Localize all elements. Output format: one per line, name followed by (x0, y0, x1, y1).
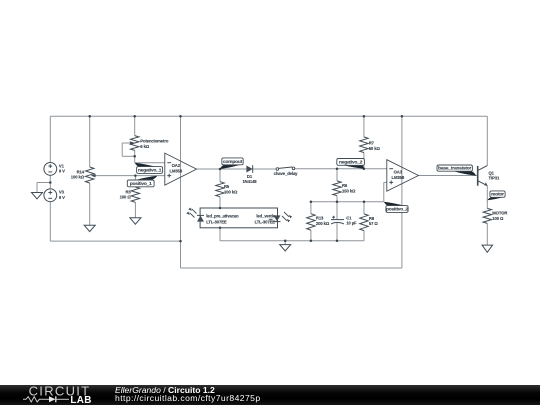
LED arrows (left) (190, 209, 197, 218)
svg-text:positivo_2: positivo_2 (386, 207, 408, 213)
svg-text:negativo_1: negativo_1 (138, 168, 162, 174)
svg-text:R7: R7 (369, 141, 375, 146)
svg-text:150 kΩ: 150 kΩ (342, 189, 356, 194)
ground (LED rail) (280, 245, 291, 251)
wire R7 top (363, 116, 365, 137)
node R3 positivo_1 junction (134, 174, 137, 177)
svg-text:C1: C1 (346, 215, 352, 220)
ground (R14) (84, 225, 95, 231)
capacitor C1 10uF (331, 219, 344, 221)
footer bar (0, 385, 540, 405)
svg-text:1N4148: 1N4148 (242, 179, 257, 184)
svg-text:MOTOR: MOTOR (492, 211, 507, 216)
svg-text:200 kΩ: 200 kΩ (316, 221, 330, 226)
svg-text:R6: R6 (342, 183, 348, 188)
transistor Q1 TIP31 (477, 166, 479, 186)
wire negativo_1 to OA2 minus (135, 162, 165, 164)
wire R8 bottom (363, 231, 365, 241)
svg-text:R8: R8 (369, 216, 375, 221)
node ground rail junctions (284, 240, 287, 243)
R14 wiper arrow (91, 174, 96, 178)
resistor MOTOR (483, 208, 491, 223)
svg-text:TIP31: TIP31 (489, 176, 500, 181)
node V3 rail junction (179, 240, 182, 243)
wire R14 wiper (95, 175, 165, 177)
svg-text:R13: R13 (316, 216, 324, 221)
svg-text:LM358: LM358 (170, 169, 183, 174)
wire R7 bottom (363, 153, 365, 169)
svg-text:LM358: LM358 (392, 175, 405, 180)
svg-text:OA3: OA3 (394, 170, 403, 175)
wire ground stub (284, 241, 286, 245)
svg-text:Potenciometro: Potenciometro (140, 139, 169, 144)
wire negative supply rail (181, 267, 402, 269)
svg-text:Q1: Q1 (489, 170, 495, 175)
wire positivo_2 net (311, 201, 384, 203)
wire LED box bottom drop (219, 228, 221, 241)
wire R6 top (336, 169, 338, 181)
wire junction to left ground (37, 182, 50, 184)
wire R13 top (310, 202, 312, 214)
resistor R14 (85, 167, 93, 183)
svg-text:100 Ω: 100 Ω (492, 216, 504, 221)
node negativo_2 junctions (336, 167, 339, 170)
wire R6 bottom (336, 196, 338, 202)
resistor R8 (360, 214, 368, 231)
ground (motor) (482, 245, 493, 252)
LED arrows (right) (282, 212, 289, 221)
wire D1 cathode to switch (253, 168, 277, 170)
svg-text:9 V: 9 V (59, 169, 65, 174)
wire switch to OA3 minus (295, 168, 387, 170)
svg-text:100 Ω: 100 Ω (120, 195, 132, 200)
wire R5 to LED box (219, 197, 221, 208)
wire potentiometer wiper loop (122, 142, 130, 144)
resistor R3 (131, 187, 139, 202)
svg-text:base_transistor: base_transistor (438, 165, 471, 171)
resistor R5 (216, 182, 224, 197)
svg-text:100 kΩ: 100 kΩ (71, 175, 85, 180)
net flag positivo_1 (136, 176, 158, 180)
svg-text:led_verde: led_verde (256, 213, 275, 218)
op-amp OA2 LM358 (165, 153, 197, 185)
wire potentiometer top (134, 116, 136, 135)
svg-text:50 kΩ: 50 kΩ (369, 146, 381, 151)
node compout junction (219, 168, 222, 171)
wire OA2 output (197, 168, 247, 170)
svg-text:V1: V1 (59, 163, 65, 168)
svg-text:OA2: OA2 (172, 163, 181, 168)
LED enclosure box (200, 208, 277, 228)
svg-text:6 kΩ: 6 kΩ (140, 144, 150, 149)
svg-text:negativo_2: negativo_2 (339, 159, 363, 165)
svg-text:V3: V3 (59, 190, 65, 195)
wire V3 bottom rail (49, 202, 51, 241)
resistor R13 (307, 214, 315, 230)
svg-text:R3: R3 (125, 189, 131, 194)
svg-text:10 µF: 10 µF (346, 221, 357, 226)
svg-text:R14: R14 (77, 169, 85, 174)
net flag compout (220, 165, 241, 169)
svg-text:LAB: LAB (70, 395, 91, 405)
wire C1 leads (336, 202, 338, 220)
voltage source V1 (44, 163, 57, 176)
LED led_verde LTL-307EE (274, 215, 281, 221)
wire OA2 supply vertical (180, 116, 182, 268)
svg-text:motor: motor (491, 191, 504, 197)
wire motor to ground (486, 223, 488, 245)
wire R13 bottom (310, 230, 312, 241)
svg-text:compout: compout (223, 159, 243, 165)
svg-text:led_pre_ativacao: led_pre_ativacao (206, 213, 239, 218)
wire Q1 emitter to motor (486, 186, 488, 209)
node rail junctions (88, 115, 91, 118)
svg-text:chave_delay: chave_delay (274, 171, 299, 176)
wire LED ground rail (220, 240, 364, 242)
node V1-V3-ground junction (49, 181, 52, 184)
wire R8 top (363, 202, 365, 214)
wire OA3 output to Q1 base (419, 175, 478, 177)
diode D1 1N4148 (246, 166, 252, 173)
ground (V1/V3 midpoint) (32, 193, 43, 199)
op-amp OA3 LM358 (387, 160, 419, 191)
svg-text:R5: R5 (224, 184, 230, 189)
node positivo_2 junctions (310, 200, 313, 203)
wire Q1 collector drop (486, 116, 488, 165)
ground (R3) (130, 218, 141, 224)
node potentiometer wiper junction (133, 155, 136, 158)
svg-text:100 kΩ: 100 kΩ (224, 189, 238, 194)
wire potentiometer bottom to negativo_1 (134, 150, 136, 162)
svg-text:9 V: 9 V (59, 195, 65, 200)
voltage source V3 (44, 189, 57, 202)
wire R14 to ground (89, 183, 91, 226)
node LED box terminals (219, 207, 222, 210)
switch chave_delay (276, 168, 279, 171)
resistor R7 (360, 137, 368, 152)
svg-text:positivo_1: positivo_1 (130, 181, 152, 187)
wire R5 top (219, 169, 221, 182)
net flag negativo_2 (344, 165, 364, 168)
wire OA3 supply vertical (401, 116, 403, 268)
LED led_pre_ativacao LTL-307EE (197, 216, 204, 222)
svg-text:57 Ω: 57 Ω (369, 221, 379, 226)
net flag negativo_1 (135, 163, 155, 167)
wire R3 to ground (134, 202, 136, 218)
svg-text:LTL-307EE: LTL-307EE (206, 219, 227, 224)
wire top supply rail (50, 115, 487, 117)
potentiometer Potenciometro (131, 136, 139, 151)
net flag base_transistor (454, 171, 477, 176)
wire R3 top (134, 176, 136, 187)
net flag positivo_2 (384, 202, 404, 206)
wire R14 top (89, 116, 91, 167)
net flag motor (487, 197, 503, 200)
svg-text:D1: D1 (247, 174, 253, 179)
resistor R6 (333, 181, 341, 196)
svg-text:LTL-307EE: LTL-307EE (255, 219, 276, 224)
CircuitLab logo (0, 385, 110, 405)
wire V1 top to rail (49, 116, 51, 162)
wire V1-V3 link (49, 175, 51, 189)
